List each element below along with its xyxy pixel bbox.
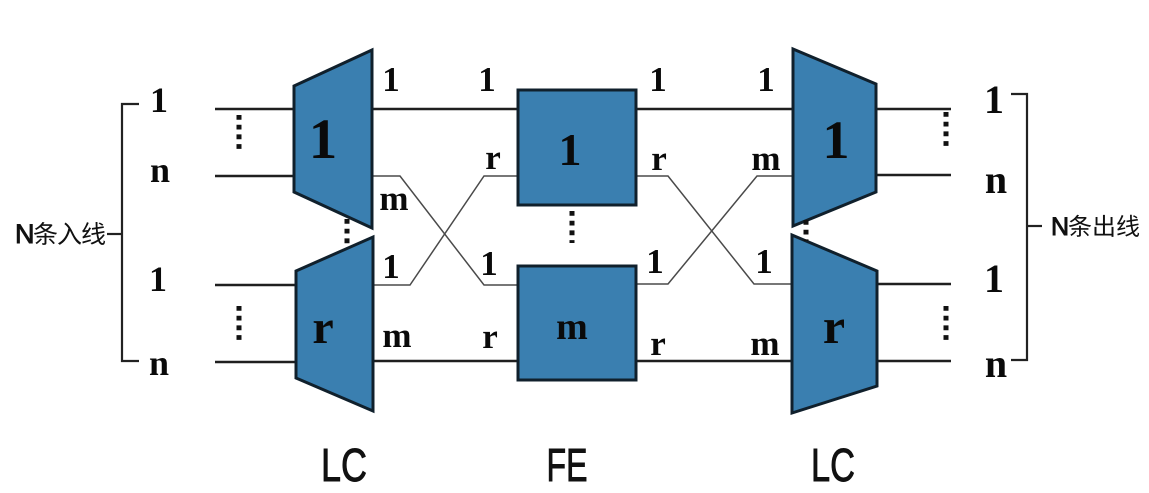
svg-text:1: 1 — [755, 242, 773, 281]
svg-text:1: 1 — [984, 256, 1004, 301]
svg-text:r: r — [312, 301, 333, 354]
svg-text:r: r — [651, 139, 667, 178]
svg-text:m: m — [382, 316, 411, 355]
svg-text:1: 1 — [150, 80, 168, 120]
svg-text:LC: LC — [321, 439, 367, 491]
svg-text:1: 1 — [309, 108, 338, 171]
svg-text:1: 1 — [823, 110, 850, 170]
svg-text:1: 1 — [480, 244, 498, 283]
svg-text:LC: LC — [811, 439, 855, 491]
svg-text:m: m — [556, 306, 588, 348]
svg-text:1: 1 — [646, 242, 664, 281]
svg-text:1: 1 — [559, 124, 582, 175]
svg-text:1: 1 — [757, 60, 775, 99]
svg-text:r: r — [823, 298, 845, 354]
svg-text:1: 1 — [382, 247, 400, 286]
svg-text:1: 1 — [478, 60, 496, 99]
svg-text:n: n — [985, 157, 1007, 202]
svg-text:N: N — [1051, 213, 1069, 241]
svg-text:r: r — [482, 317, 498, 356]
svg-text:FE: FE — [547, 439, 588, 491]
svg-text:1: 1 — [382, 60, 400, 99]
svg-text:n: n — [985, 341, 1007, 386]
svg-text:r: r — [485, 138, 501, 177]
svg-text:N: N — [15, 219, 35, 249]
svg-text:m: m — [379, 179, 408, 218]
svg-text:r: r — [650, 324, 666, 363]
svg-text:n: n — [149, 343, 169, 383]
svg-text:1: 1 — [649, 60, 667, 99]
svg-text:1: 1 — [149, 259, 167, 299]
svg-text:1: 1 — [984, 77, 1004, 122]
svg-text:m: m — [750, 324, 779, 363]
svg-text:n: n — [150, 150, 170, 190]
svg-text:m: m — [751, 139, 780, 178]
